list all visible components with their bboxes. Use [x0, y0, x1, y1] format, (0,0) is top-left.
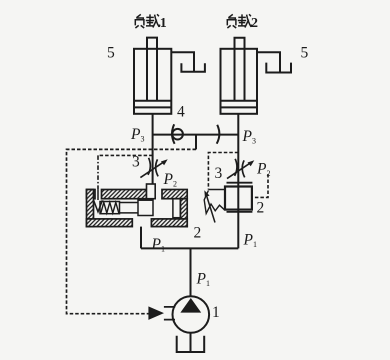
- load hook 1: [171, 52, 194, 71]
- load hook 2: [257, 52, 280, 72]
- compensator spring zigzag: [101, 202, 119, 213]
- svg-text:3: 3: [132, 154, 140, 171]
- wire LS pilot dashed to pump: [67, 149, 197, 313]
- compensator block 2 right wall: [180, 199, 187, 227]
- throttle valve 3 right arrow: [227, 163, 251, 179]
- compensator block 2 bottom wall right: [151, 219, 187, 227]
- throttle valve 3 left arcs: [148, 158, 158, 177]
- svg-text:3: 3: [215, 165, 223, 182]
- label 负载1: [135, 14, 160, 28]
- throttle valve 3 left arrow: [140, 162, 164, 178]
- svg-text:2: 2: [251, 16, 258, 31]
- valve 2 right bottom cap: [227, 211, 253, 213]
- compensator block 2 top wall left: [87, 190, 96, 199]
- svg-text:P3: P3: [130, 126, 144, 144]
- wire cylinder1 down line: [152, 114, 154, 200]
- svg-text:1: 1: [212, 304, 220, 321]
- compensator block 2 port box: [147, 184, 156, 199]
- tank: [177, 336, 205, 352]
- svg-text:2: 2: [194, 225, 202, 242]
- wire compensator spring pilot dash-dot vertical: [97, 155, 99, 190]
- svg-text:5: 5: [107, 45, 115, 62]
- compensator block 2 top right bar: [162, 190, 187, 199]
- pump 1 circle: [173, 296, 210, 333]
- svg-text:1: 1: [160, 16, 167, 31]
- valve 2 right body: [225, 187, 252, 210]
- pump actuator channel: [164, 307, 175, 320]
- wire compensator spring pilot dashed horizontal: [98, 154, 153, 156]
- compensator spring box: [100, 202, 120, 214]
- compensator block 2 left wall: [87, 190, 94, 227]
- load bucket 2: [266, 63, 291, 73]
- valve 2 right spring link: [208, 189, 225, 191]
- wire P1 horizontal: [141, 247, 238, 249]
- svg-text:5: 5: [301, 45, 309, 62]
- compensator spool land left: [138, 200, 153, 215]
- compensator spool land right: [173, 199, 181, 218]
- wire pump suction: [190, 333, 192, 351]
- svg-text:4: 4: [177, 104, 185, 121]
- svg-text:P1: P1: [196, 271, 210, 289]
- shuttle valve U4 right seat: [217, 125, 220, 144]
- svg-text:2: 2: [257, 200, 265, 217]
- cylinder C1 rod: [147, 38, 157, 101]
- wire pump riser: [190, 248, 192, 296]
- compensator pilot needle: [94, 190, 103, 212]
- valve 2 right P2 pilot dashed: [252, 174, 268, 197]
- svg-text:P1: P1: [151, 236, 165, 254]
- wire LS tap stub: [195, 135, 197, 150]
- compensator block 2 bottom wall left: [87, 219, 133, 227]
- shuttle valve U4 ball: [172, 129, 183, 140]
- wire shuttle cross line: [153, 134, 239, 136]
- cylinder C2 body: [221, 49, 258, 114]
- load bucket 1: [181, 63, 205, 71]
- throttle valve 3 right arcs: [235, 159, 245, 178]
- valve 2 right adjust arrow: [206, 195, 215, 223]
- label 负载2: [227, 14, 252, 28]
- svg-text:P1: P1: [243, 232, 257, 250]
- cylinder C2 rod: [235, 38, 245, 101]
- svg-text:P3: P3: [242, 128, 256, 146]
- valve 2 right spring zigzag: [204, 191, 224, 214]
- svg-text:P2: P2: [163, 171, 177, 189]
- cylinder C1 body: [134, 49, 171, 114]
- wire P1 from block port: [140, 227, 142, 249]
- cylinder C2 piston: [221, 101, 258, 108]
- wire cylinder2 down line: [237, 114, 239, 249]
- cylinder C1 piston: [134, 101, 171, 108]
- valve 2 right top cap: [227, 182, 253, 184]
- pump 1 triangle: [180, 298, 201, 313]
- valve 2 right pilot dashed from main line: [208, 153, 238, 190]
- pump actuator arrowhead: [148, 306, 164, 320]
- compensator spool shaft: [120, 203, 139, 213]
- shuttle valve U4 left seat: [172, 124, 175, 144]
